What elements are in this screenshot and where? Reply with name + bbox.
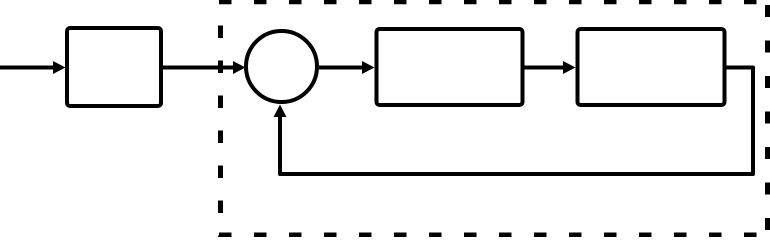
block: controller box	[67, 28, 161, 106]
block: plant box 2	[578, 29, 725, 105]
wire: controller to summing junction	[161, 66, 234, 70]
dashed subsystem boundary: right border	[765, 5, 770, 237]
dashed subsystem boundary: bottom border	[219, 233, 770, 238]
dashed subsystem boundary: top border	[219, 0, 770, 4]
wire: input arrow into controller block	[0, 66, 54, 70]
dashed subsystem boundary: left border	[218, 26, 223, 238]
wire: feedback path from plant box 2 output around to summing junction	[280, 68, 753, 175]
wire: plant box 1 to plant box 2	[525, 66, 565, 70]
block: plant box 1	[377, 29, 523, 105]
wire: summing junction to plant box 1	[319, 66, 363, 70]
summing junction circle	[246, 31, 317, 102]
